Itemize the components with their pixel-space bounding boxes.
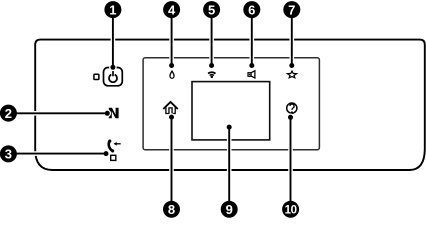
- svg-text:7: 7: [288, 2, 295, 17]
- svg-text:9: 9: [226, 202, 233, 217]
- svg-text:1: 1: [109, 2, 116, 17]
- svg-text:5: 5: [208, 2, 215, 17]
- svg-text:3: 3: [5, 147, 12, 162]
- svg-text:4: 4: [168, 2, 176, 17]
- svg-text:10: 10: [285, 205, 297, 217]
- svg-text:6: 6: [248, 2, 255, 17]
- svg-text:8: 8: [168, 202, 175, 217]
- svg-text:2: 2: [5, 106, 12, 121]
